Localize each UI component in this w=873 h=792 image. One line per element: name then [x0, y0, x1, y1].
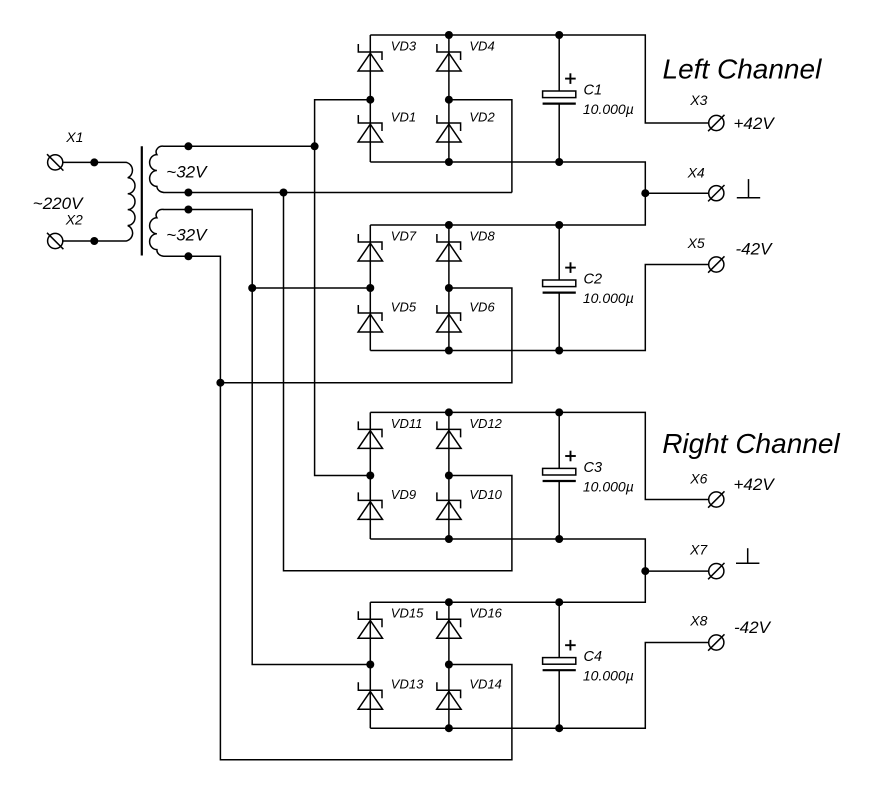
diode VD8 — [437, 234, 461, 261]
transformer primary winding — [63, 162, 135, 241]
capacitor C3 — [543, 412, 576, 539]
junction X7 — [641, 567, 649, 575]
svg-text:~220V: ~220V — [33, 194, 84, 213]
diode VD6 — [437, 305, 461, 332]
svg-text:VD6: VD6 — [469, 299, 495, 314]
svg-text:X6: X6 — [689, 471, 707, 487]
svg-text:VD1: VD1 — [391, 109, 416, 124]
svg-text:VD3: VD3 — [391, 38, 417, 53]
diode VD4 — [437, 44, 461, 71]
junction C1 top — [555, 31, 563, 39]
polarity + C3 — [565, 451, 576, 462]
wire -42V rail right channel — [370, 643, 708, 729]
junction bridge4 bottom — [445, 724, 453, 732]
wire -42V rail left channel — [370, 265, 708, 351]
diode VD3 — [358, 44, 382, 71]
svg-text:VD2: VD2 — [469, 109, 495, 124]
junction C3 top — [555, 408, 563, 416]
transformer secondary 2 winding — [150, 209, 164, 256]
terminal X3 — [708, 115, 724, 131]
junction secondary2 top terminal — [184, 206, 192, 214]
wire 0V rail left channel — [370, 162, 645, 225]
ground symbol right — [736, 548, 759, 563]
capacitor C1 — [543, 35, 576, 162]
capacitor C2 — [543, 225, 576, 351]
wire bridge4 left column — [369, 602, 371, 728]
junction sec2-bottom branch — [216, 379, 224, 387]
junction sec1-top feed — [311, 142, 319, 150]
diode VD14 — [437, 682, 461, 709]
svg-text:X3: X3 — [689, 92, 707, 108]
diode VD16 — [437, 611, 461, 638]
junction sec1-bottom branch — [280, 189, 288, 197]
wire +42V rail right channel — [370, 412, 708, 499]
wire secondary1 bottom — [164, 192, 512, 194]
wire bridge1 right AC — [449, 100, 512, 193]
junction bridge2 bottom — [445, 347, 453, 355]
terminal X8 — [708, 634, 724, 650]
wire bridge2 left column — [369, 225, 371, 351]
junction secondary1 bottom terminal — [184, 189, 192, 197]
diode VD11 — [358, 421, 382, 448]
junction bridge1 right mid — [445, 96, 453, 104]
junction C2 top — [555, 221, 563, 229]
svg-text:10.000µ: 10.000µ — [583, 101, 634, 117]
diode VD9 — [358, 492, 382, 519]
junction C4 bottom — [555, 724, 563, 732]
wire bridge3 right column — [448, 412, 450, 539]
wire sec1-bottom branch to bridge3 right — [284, 193, 512, 571]
svg-text:-42V: -42V — [734, 618, 772, 637]
wire +42V rail left channel — [370, 35, 708, 123]
svg-text:10.000µ: 10.000µ — [583, 668, 634, 684]
svg-text:~32V: ~32V — [166, 226, 208, 245]
diode VD10 — [437, 492, 461, 519]
svg-text:X1: X1 — [65, 129, 83, 145]
transformer core — [141, 146, 143, 255]
wire bridge2 right AC — [220, 288, 512, 383]
svg-text:X7: X7 — [689, 542, 708, 558]
diode VD1 — [358, 115, 382, 142]
svg-text:X4: X4 — [687, 165, 705, 181]
junction bridge1 top — [445, 31, 453, 39]
polarity + C4 — [565, 640, 576, 651]
terminal X4 — [708, 185, 724, 201]
junction bridge1 left mid — [366, 96, 374, 104]
svg-text:VD14: VD14 — [469, 677, 502, 692]
junction bridge4 top — [445, 598, 453, 606]
junction bridge2 right mid — [445, 284, 453, 292]
svg-text:X2: X2 — [65, 212, 83, 228]
polarity + C1 — [565, 73, 576, 84]
wire secondary2 top — [164, 210, 371, 665]
svg-text:C1: C1 — [584, 83, 603, 99]
svg-text:Left Channel: Left Channel — [663, 54, 823, 85]
svg-text:-42V: -42V — [736, 240, 774, 259]
svg-text:C4: C4 — [584, 649, 603, 665]
transformer secondary 1 winding — [150, 146, 164, 192]
svg-text:X5: X5 — [687, 235, 705, 251]
terminal X5 — [708, 256, 724, 272]
junction bridge3 top — [445, 408, 453, 416]
svg-text:10.000µ: 10.000µ — [583, 478, 634, 494]
terminal X1 — [47, 154, 63, 170]
junction on X2 wire — [90, 237, 98, 245]
capacitor C4 — [543, 602, 576, 728]
svg-text:+42V: +42V — [734, 475, 776, 494]
junction secondary2 bottom terminal — [184, 252, 192, 260]
svg-text:10.000µ: 10.000µ — [583, 290, 634, 306]
svg-text:~32V: ~32V — [166, 162, 208, 181]
svg-text:C2: C2 — [584, 272, 603, 288]
junction sec2-top branch — [248, 284, 256, 292]
junction C3 bottom — [555, 535, 563, 543]
junction C1 bottom — [555, 158, 563, 166]
junction bridge3 right mid — [445, 472, 453, 480]
svg-text:VD15: VD15 — [391, 606, 424, 621]
svg-text:X8: X8 — [689, 613, 707, 629]
diode VD13 — [358, 682, 382, 709]
junction bridge2 left mid — [366, 284, 374, 292]
svg-text:VD11: VD11 — [391, 416, 423, 431]
svg-text:VD16: VD16 — [469, 606, 502, 621]
junction on X1 wire — [90, 158, 98, 166]
diode VD12 — [437, 421, 461, 448]
svg-text:VD4: VD4 — [469, 38, 494, 53]
diode VD7 — [358, 234, 382, 261]
ground symbol left — [737, 179, 760, 198]
svg-text:VD5: VD5 — [391, 299, 417, 314]
terminal X6 — [708, 491, 724, 507]
diode VD5 — [358, 305, 382, 332]
polarity + C2 — [565, 262, 576, 273]
svg-text:VD10: VD10 — [469, 487, 502, 502]
wire bridge2 left AC — [252, 287, 370, 289]
junction C2 bottom — [555, 347, 563, 355]
wire X7 stub — [645, 570, 709, 572]
terminal X2 — [47, 233, 63, 249]
wire secondary1 top — [164, 145, 315, 147]
junction bridge1 bottom — [445, 158, 453, 166]
junction X4 — [641, 189, 649, 197]
wire bridge3 left column — [369, 412, 371, 539]
junction C4 top — [555, 598, 563, 606]
terminal X7 — [708, 563, 724, 579]
junction bridge3 bottom — [445, 535, 453, 543]
junction secondary1 top terminal — [184, 142, 192, 150]
wire bridge1 left column — [369, 35, 371, 162]
junction bridge4 right mid — [445, 661, 453, 669]
junction bridge2 top — [445, 221, 453, 229]
wire bridge1 right column — [448, 35, 450, 162]
wire X4 stub — [645, 192, 708, 194]
svg-text:Right Channel: Right Channel — [662, 428, 840, 459]
wire bridge4 right column — [448, 602, 450, 728]
svg-text:VD8: VD8 — [469, 228, 495, 243]
junction bridge4 left mid — [366, 661, 374, 669]
svg-text:+42V: +42V — [734, 114, 776, 133]
wire secondary2 bottom — [164, 256, 512, 760]
diode VD2 — [437, 115, 461, 142]
wire bridge2 right column — [448, 225, 450, 351]
wire 0V rail right channel — [370, 539, 645, 602]
diode VD15 — [358, 611, 382, 638]
wire sec1-top to bridge1 and bridge3 left — [315, 100, 371, 476]
svg-text:VD7: VD7 — [391, 228, 417, 243]
svg-text:C3: C3 — [584, 460, 603, 476]
svg-text:VD12: VD12 — [469, 416, 502, 431]
svg-text:VD9: VD9 — [391, 487, 416, 502]
svg-text:VD13: VD13 — [391, 677, 424, 692]
junction bridge3 left mid — [366, 472, 374, 480]
